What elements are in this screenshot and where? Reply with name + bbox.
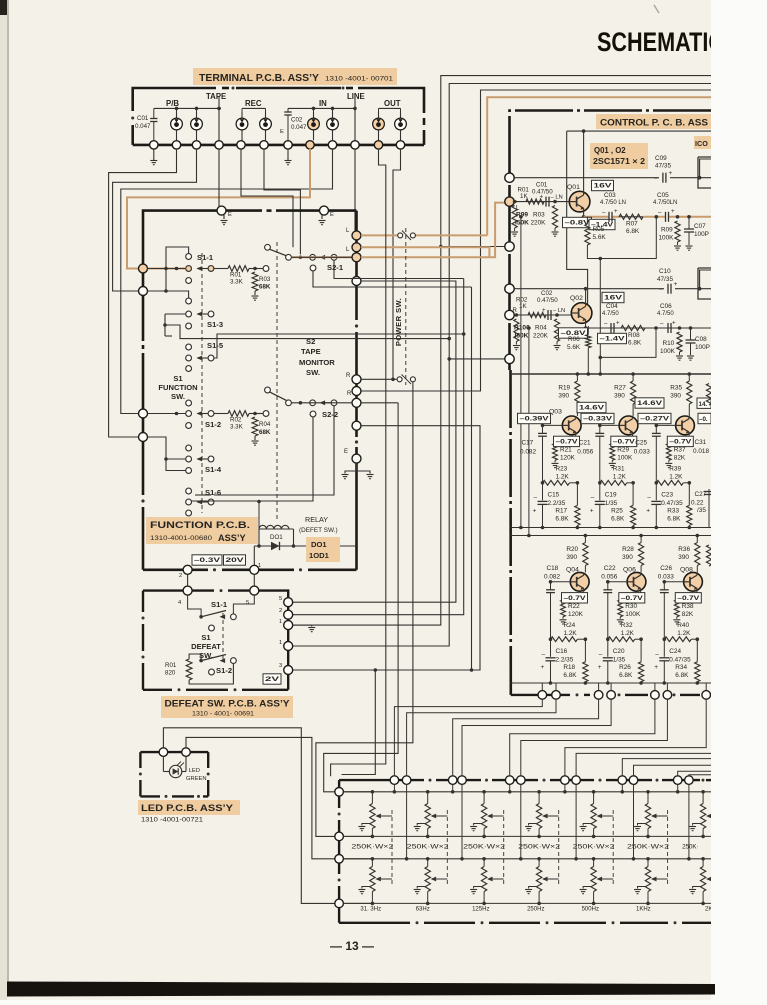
- svg-text:(DEFET SW.): (DEFET SW.): [299, 527, 338, 534]
- svg-text:0.047: 0.047: [135, 123, 151, 130]
- svg-text:CONTROL P. C. B. ASS: CONTROL P. C. B. ASS: [600, 118, 709, 129]
- svg-text:I50K: I50K: [515, 220, 529, 227]
- svg-text:R30: R30: [625, 603, 637, 610]
- svg-text:1310 -4001-00721: 1310 -4001-00721: [141, 817, 203, 824]
- base cap C18: [546, 589, 555, 591]
- svg-text:C04: C04: [606, 303, 618, 310]
- pot gang dashed lines: [391, 810, 393, 885]
- svg-text:1K: 1K: [519, 303, 527, 310]
- svg-text:R39: R39: [669, 465, 681, 472]
- svg-text:R17: R17: [555, 507, 567, 514]
- svg-text:C20: C20: [613, 648, 625, 655]
- svg-text:Q06: Q06: [623, 567, 636, 574]
- S2 gang dashed: [276, 242, 278, 521]
- svg-text:+: +: [646, 507, 650, 514]
- svg-text:R31: R31: [613, 465, 625, 472]
- transistor Q06: [627, 572, 646, 591]
- Q01 Q02 type label: [590, 143, 648, 169]
- wire OUT-L down to pot edge: [331, 170, 386, 776]
- svg-text:6.8K: 6.8K: [555, 515, 569, 522]
- svg-text:1: 1: [279, 640, 282, 646]
- svg-text:R35: R35: [670, 385, 682, 392]
- emitter resistor R29: [610, 443, 615, 460]
- svg-text:100K: 100K: [660, 348, 676, 355]
- defeat pin3 branch down: [374, 668, 378, 672]
- R bus: [511, 535, 711, 537]
- svg-text:DO1: DO1: [270, 534, 283, 541]
- R99 150K: [512, 206, 517, 229]
- electrolytic C20: [603, 657, 613, 659]
- switch S1-4: [186, 445, 192, 451]
- pot pair 6 250K-Wx2: [647, 792, 649, 804]
- svg-text:R18: R18: [563, 664, 575, 671]
- svg-text:4.7/50 LN: 4.7/50 LN: [600, 200, 626, 206]
- svg-text:2.2/35: 2.2/35: [556, 656, 574, 663]
- switch S1-1: [186, 254, 192, 260]
- svg-text:R27: R27: [614, 385, 626, 392]
- svg-text:3: 3: [279, 663, 282, 669]
- base cap C26: [660, 589, 669, 591]
- svg-text:1310 -4001- 00701: 1310 -4001- 00701: [325, 76, 393, 83]
- svg-text:–: –: [591, 494, 595, 501]
- emitter resistor R30: [618, 600, 623, 617]
- electrolytic C19: [595, 500, 605, 502]
- pot left pin stubs: [344, 791, 373, 793]
- transistor Q02: [571, 303, 592, 324]
- svg-text:–0.27V: –0.27V: [640, 416, 670, 423]
- svg-text:–0.7V: –0.7V: [613, 439, 636, 446]
- resistor R03 68K: [252, 272, 258, 291]
- R07 6.8K: [619, 214, 643, 219]
- svg-text:5: 5: [246, 600, 249, 606]
- pot top pin drops: [393, 784, 395, 791]
- svg-text:S1-2: S1-2: [216, 666, 232, 675]
- svg-text:1OD1: 1OD1: [309, 551, 330, 560]
- svg-text:+: +: [598, 664, 602, 671]
- pot box edges: [339, 779, 424, 781]
- svg-text:C17: C17: [522, 439, 534, 446]
- bus corner to control node B and defeat pin 1b: [449, 84, 711, 359]
- svg-text:C16: C16: [556, 648, 568, 655]
- svg-text:S1-4: S1-4: [205, 465, 222, 474]
- svg-text:–: –: [659, 286, 663, 293]
- svg-text:SW.: SW.: [171, 392, 185, 401]
- svg-text:6.8K: 6.8K: [628, 340, 642, 347]
- gyrator bottom pins: [541, 683, 543, 695]
- svg-text:14.6V: 14.6V: [579, 405, 605, 412]
- R100 150K: [514, 319, 519, 342]
- svg-text:–0.7V: –0.7V: [677, 595, 700, 602]
- svg-text:SW.: SW.: [306, 368, 320, 377]
- svg-text:–: –: [602, 209, 606, 216]
- svg-text:C01: C01: [536, 182, 548, 189]
- svg-text:LED: LED: [189, 768, 200, 774]
- svg-text:120K: 120K: [560, 454, 576, 461]
- svg-text:R28: R28: [622, 546, 634, 553]
- svg-text:4.7/50LN: 4.7/50LN: [653, 200, 677, 206]
- svg-text:6.8K: 6.8K: [611, 515, 625, 522]
- svg-text:0.082: 0.082: [520, 448, 536, 455]
- svg-text:+: +: [669, 170, 673, 177]
- Q02 emitter chain: [585, 323, 587, 328]
- svg-text:LINE: LINE: [347, 92, 365, 101]
- coil wire up to S1-6 row: [258, 502, 260, 530]
- svg-text:IN: IN: [319, 99, 327, 108]
- svg-text:250K·: 250K·: [682, 844, 699, 851]
- svg-text:820: 820: [165, 670, 176, 677]
- base cap C22: [603, 589, 612, 591]
- svg-text:20V: 20V: [226, 557, 245, 564]
- svg-text:GREEN: GREEN: [186, 776, 207, 782]
- svg-text:100K: 100K: [625, 611, 641, 618]
- svg-text:68K: 68K: [259, 284, 271, 291]
- svg-text:C05: C05: [657, 192, 669, 199]
- svg-text:–: –: [654, 175, 658, 182]
- drop Q01 chain to L bus: [520, 217, 522, 528]
- svg-text:6.8K: 6.8K: [619, 672, 633, 679]
- svg-text:SCHEMATIC: SCHEMATIC: [597, 27, 724, 57]
- defeat gang dash: [222, 613, 224, 661]
- POWER SW: [405, 228, 407, 385]
- svg-text:3.3K: 3.3K: [230, 424, 244, 431]
- svg-text:4.7/50: 4.7/50: [602, 311, 619, 317]
- svg-text:S1-3: S1-3: [207, 320, 223, 329]
- defeat S1-2: [199, 659, 203, 663]
- R04 220K: [555, 313, 559, 317]
- transistor Q08: [684, 572, 703, 591]
- row2 bottom bus: [511, 682, 711, 684]
- defeat internal wires: [188, 595, 202, 617]
- svg-text:–0.7V: –0.7V: [564, 595, 587, 602]
- svg-text:+: +: [672, 320, 676, 327]
- svg-text:390: 390: [566, 554, 577, 561]
- svg-text:390: 390: [558, 393, 569, 400]
- link row y334 to S1-5: [214, 334, 464, 358]
- base cap C17: [538, 432, 547, 434]
- svg-text:Q08: Q08: [680, 567, 693, 574]
- svg-text:220K: 220K: [533, 333, 549, 340]
- svg-text:+: +: [590, 507, 594, 514]
- svg-text:1.2K: 1.2K: [677, 630, 691, 637]
- bottom scan bar: [7, 982, 715, 997]
- staircase wires gyrator to pots: [394, 699, 542, 776]
- svg-text:63Hz: 63Hz: [416, 907, 430, 913]
- R node terminals: [352, 375, 361, 384]
- svg-text:–0.7V: –0.7V: [556, 439, 579, 446]
- svg-text:R21: R21: [560, 446, 572, 453]
- svg-text:250K·W×2: 250K·W×2: [463, 844, 506, 851]
- wire TAPE to E: [218, 149, 220, 207]
- svg-text:R04: R04: [535, 325, 547, 332]
- svg-text:–: –: [647, 494, 651, 501]
- svg-text:C22: C22: [604, 565, 616, 572]
- svg-text:R: R: [513, 308, 518, 314]
- L node terminals: [352, 231, 361, 240]
- svg-text:R26: R26: [619, 664, 631, 671]
- function PCB assy label: [146, 517, 258, 544]
- staircase wires from page edge: [576, 753, 711, 775]
- resistor R01 3.3K: [214, 268, 228, 270]
- svg-text:1KHz: 1KHz: [636, 907, 651, 913]
- transistor Q04: [570, 572, 589, 591]
- svg-text:C02: C02: [541, 290, 553, 297]
- svg-text:S1-6: S1-6: [205, 488, 221, 497]
- pot left pins: [335, 788, 344, 797]
- svg-text:–0.7V: –0.7V: [669, 439, 692, 446]
- tan corner wire: [487, 97, 711, 235]
- svg-text:4.7/50: 4.7/50: [657, 311, 674, 317]
- svg-text:6.8K: 6.8K: [626, 228, 640, 235]
- svg-text:390: 390: [670, 393, 681, 400]
- svg-text:1.2K: 1.2K: [669, 473, 683, 480]
- svg-text:R29: R29: [617, 446, 629, 453]
- S2-1 switch: [265, 244, 271, 250]
- svg-text:100P: 100P: [695, 344, 710, 351]
- svg-text:R22: R22: [568, 603, 580, 610]
- svg-text:5: 5: [279, 596, 282, 602]
- svg-text:S1-1: S1-1: [197, 253, 214, 262]
- electrolytic C24: [659, 657, 669, 659]
- L bus: [511, 527, 711, 529]
- svg-text:R34: R34: [675, 664, 687, 671]
- svg-text:1310 - 4001- 00691: 1310 - 4001- 00691: [192, 711, 254, 718]
- svg-text:+: +: [533, 507, 537, 514]
- LED wire B to pot pin: [186, 737, 335, 858]
- pot bus rows: [344, 791, 711, 793]
- relay coil (defeat sw): [259, 525, 266, 529]
- svg-text:R37: R37: [674, 446, 686, 453]
- pot pair 7 250K-Wx2: [702, 792, 704, 804]
- svg-text:2.2/35: 2.2/35: [548, 500, 566, 507]
- svg-text:1310-4001-00680: 1310-4001-00680: [150, 535, 212, 542]
- R10 100K: [677, 332, 682, 352]
- svg-text:E: E: [330, 212, 334, 218]
- page edge clip: [711, 0, 767, 981]
- cut partial connector boxes at page edge: [698, 157, 711, 188]
- svg-text:LED P.C.B. ASS’Y: LED P.C.B. ASS’Y: [141, 803, 233, 813]
- svg-text:R38: R38: [682, 603, 694, 610]
- svg-text:2: 2: [179, 573, 182, 579]
- tan L wires to right: [361, 234, 398, 236]
- terminal PCB box: [133, 88, 424, 145]
- bus corner to control node A and defeat pin 1: [441, 76, 711, 247]
- ground under C01 pin: [153, 149, 155, 160]
- svg-text:14.: 14.: [699, 401, 708, 408]
- svg-text:R01: R01: [230, 272, 242, 279]
- svg-text:250Hz: 250Hz: [527, 907, 544, 913]
- svg-text:Q01 , O2: Q01 , O2: [594, 146, 626, 155]
- svg-text:6.8K: 6.8K: [667, 515, 681, 522]
- svg-text:16V: 16V: [604, 295, 623, 302]
- electrolytic C23: [651, 500, 661, 502]
- tan wire IN-L to function node: [127, 149, 310, 269]
- svg-text:C09: C09: [655, 155, 667, 162]
- svg-text:DEFEAT: DEFEAT: [191, 642, 221, 651]
- svg-text:–: –: [658, 209, 662, 216]
- svg-text:C31: C31: [695, 439, 707, 446]
- drop Q02 chain to R bus: [528, 328, 530, 536]
- svg-text:390: 390: [614, 393, 625, 400]
- S2-1 spare contact drops to defeat pins: [310, 265, 316, 271]
- gnd at pin 1: [293, 625, 312, 626]
- svg-text:R05: R05: [593, 226, 605, 233]
- svg-text:DEFEAT SW. P.C.B. ASS’Y: DEFEAT SW. P.C.B. ASS’Y: [165, 699, 290, 709]
- electrolytic C16: [546, 657, 556, 659]
- jack bus wiring: [154, 107, 221, 109]
- svg-text:R24: R24: [564, 622, 576, 629]
- emitter resistor R22: [561, 600, 566, 617]
- svg-text:C07: C07: [694, 223, 706, 230]
- svg-text:R20: R20: [566, 546, 578, 553]
- svg-text:S1: S1: [201, 633, 211, 642]
- svg-text:250K·W×2: 250K·W×2: [407, 844, 450, 851]
- R08 6.8K: [621, 325, 645, 330]
- svg-text:390: 390: [678, 554, 689, 561]
- Q01 emitter chain (tan): [583, 212, 585, 217]
- svg-text:0.033: 0.033: [658, 573, 674, 580]
- svg-text:0.018: 0.018: [693, 448, 709, 455]
- svg-text:ASS’Y: ASS’Y: [218, 533, 246, 543]
- svg-text:–: –: [660, 321, 664, 328]
- svg-text:+: +: [674, 281, 678, 288]
- svg-text:1.2K: 1.2K: [556, 473, 570, 480]
- svg-text:0.47/35: 0.47/35: [661, 500, 683, 507]
- S2-2 switch: [265, 387, 271, 393]
- svg-text:6.8K: 6.8K: [563, 672, 577, 679]
- svg-text:R33: R33: [667, 507, 679, 514]
- svg-text:RELAY: RELAY: [305, 515, 328, 524]
- wire P/B-R to function node: [113, 149, 197, 291]
- svg-text:–0.7V: –0.7V: [621, 595, 644, 602]
- svg-text:1: 1: [279, 619, 282, 625]
- wire OUT-R down to power sw: [393, 149, 401, 379]
- R09 100K: [675, 221, 680, 242]
- cut resistor row1: [706, 384, 711, 406]
- svg-text:C03: C03: [604, 192, 616, 199]
- diode D01: [254, 545, 356, 547]
- svg-text:+: +: [614, 208, 618, 215]
- svg-text:R09: R09: [661, 227, 673, 234]
- svg-text:0.033: 0.033: [634, 448, 650, 455]
- svg-text:TAPE: TAPE: [301, 347, 321, 356]
- left edge nodes: [139, 264, 148, 273]
- svg-text:47/35: 47/35: [657, 276, 673, 283]
- svg-text:C24: C24: [669, 648, 681, 655]
- svg-text:220K: 220K: [531, 220, 547, 227]
- gyrator box bottom edge: [511, 694, 570, 696]
- wire REC to S2-1: [264, 149, 300, 255]
- svg-text:C23: C23: [661, 491, 673, 498]
- svg-text:–0.39V: –0.39V: [520, 416, 550, 423]
- svg-text:5.6K: 5.6K: [567, 344, 581, 351]
- ground under E pin: [287, 149, 289, 160]
- control left edge nodes: [505, 173, 514, 182]
- svg-text:Q02: Q02: [570, 295, 583, 302]
- svg-text:–: –: [542, 651, 546, 658]
- svg-text:R07: R07: [626, 221, 638, 228]
- svg-text:250K·W×2: 250K·W×2: [351, 844, 394, 851]
- svg-text:R32: R32: [621, 622, 633, 629]
- emitter resistor R38: [674, 600, 679, 617]
- svg-text:C15: C15: [548, 491, 560, 498]
- wire OUT-L down to S2: [379, 149, 386, 170]
- svg-text:–0.33V: –0.33V: [583, 416, 613, 423]
- wire IN-R to function node: [121, 149, 333, 414]
- svg-text:16V: 16V: [594, 183, 613, 190]
- svg-text:/35: /35: [697, 507, 706, 514]
- switch S1-5: [186, 344, 192, 350]
- S1 gang dashed: [201, 253, 203, 513]
- pot pair 5 250K-Wx2: [593, 792, 595, 804]
- svg-text:R19: R19: [558, 385, 570, 392]
- svg-text:3.3K: 3.3K: [230, 279, 244, 286]
- svg-text:5.6K: 5.6K: [593, 234, 607, 241]
- svg-text:390: 390: [622, 554, 633, 561]
- svg-text:R03: R03: [259, 276, 271, 283]
- resistor R02 3.3K: [214, 413, 228, 415]
- transistor Q01: [569, 191, 590, 212]
- pot pair 1 250K-Wx2: [371, 792, 373, 804]
- svg-text:0.056: 0.056: [577, 448, 593, 455]
- svg-text:C02: C02: [291, 117, 303, 124]
- wire power R to pot pin 836: [316, 382, 413, 837]
- svg-text:OUT: OUT: [384, 99, 401, 108]
- E node with grounds: [352, 454, 361, 463]
- svg-text:S1-2: S1-2: [205, 420, 221, 429]
- pot pair 4 250K-Wx2: [538, 792, 540, 804]
- transistor Q05: [619, 416, 638, 435]
- svg-text:2V: 2V: [265, 676, 281, 683]
- svg-text:E: E: [228, 212, 232, 218]
- svg-text:+: +: [541, 664, 545, 671]
- svg-text:2SC1571 × 2: 2SC1571 × 2: [593, 157, 646, 166]
- bias drop to bus: [599, 259, 601, 375]
- RCA jacks: [176, 112, 178, 140]
- LED wire A to pot pin: [163, 728, 334, 904]
- svg-text:– LN: – LN: [551, 195, 563, 201]
- svg-text:R23: R23: [556, 465, 568, 472]
- svg-text:R40: R40: [677, 622, 689, 629]
- nodes on function box bottom: [183, 565, 192, 574]
- svg-text:1.2K: 1.2K: [621, 630, 635, 637]
- defeat sw box: [143, 591, 288, 690]
- svg-text:82K: 82K: [682, 611, 694, 618]
- Q02 feedback wire: [600, 328, 656, 357]
- svg-text:C21: C21: [579, 439, 591, 446]
- svg-text:Q01: Q01: [567, 184, 580, 191]
- svg-text:C18: C18: [547, 565, 559, 572]
- svg-text:100K: 100K: [659, 235, 675, 242]
- svg-text:FUNCTION P.C.B.: FUNCTION P.C.B.: [150, 520, 250, 530]
- svg-text:C19: C19: [605, 491, 617, 498]
- base cap C21: [595, 432, 604, 434]
- control label: [596, 114, 711, 129]
- svg-text:+: +: [671, 208, 675, 215]
- R05 5.6K: [585, 224, 590, 245]
- svg-text:0.22: 0.22: [691, 500, 704, 507]
- svg-text:–: –: [655, 651, 659, 658]
- svg-text:–1.4V: –1.4V: [600, 336, 626, 343]
- svg-text:R08: R08: [628, 332, 640, 339]
- svg-text:68K: 68K: [259, 429, 271, 436]
- gyrator top bus: [511, 373, 711, 375]
- IC label cut: [694, 136, 711, 149]
- svg-text:6.8K: 6.8K: [675, 672, 689, 679]
- switch S1-2: [186, 400, 192, 406]
- svg-text:MONITOR: MONITOR: [299, 358, 335, 367]
- svg-text:+: +: [616, 320, 620, 327]
- svg-text:0.056: 0.056: [601, 573, 617, 580]
